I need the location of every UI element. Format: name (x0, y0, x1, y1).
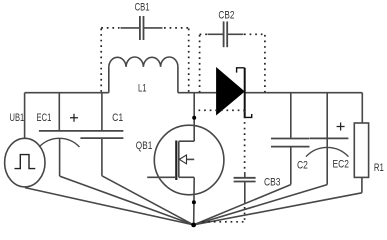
capacitor C1 (80, 131, 123, 176)
capacitor EC1 (39, 114, 81, 176)
inductor L1 (109, 57, 178, 93)
svg-text:CB2: CB2 (218, 9, 234, 21)
wire C1 to ground (102, 176, 194, 225)
wire C2 top lead (290, 93, 292, 139)
wire QB1 source (193, 177, 196, 225)
svg-text:L1: L1 (138, 83, 147, 95)
wire dotted box CB1 (101, 28, 189, 92)
capacitor CB3 (234, 172, 256, 203)
wire EC2 top lead (326, 93, 328, 139)
wire UB1 to ground (25, 188, 194, 225)
wire dotted CB3 net (199, 110, 245, 222)
wire R1 to ground (194, 193, 362, 225)
wire top rail left (25, 92, 109, 94)
svg-text:CB1: CB1 (135, 2, 150, 14)
node ground vertex (191, 223, 196, 228)
svg-text:CB3: CB3 (264, 176, 280, 188)
diode D1 (216, 67, 252, 117)
node source dot (192, 200, 196, 204)
resistor R1 (354, 123, 368, 193)
wire EC1 top lead (58, 93, 60, 131)
wire top rail middle (178, 92, 216, 94)
capacitor CB2 (208, 21, 244, 47)
svg-text:C1: C1 (112, 112, 123, 124)
wire C1 top lead (101, 93, 103, 131)
wire top rail right (245, 92, 363, 94)
transistor QB1 (147, 125, 224, 195)
source UB1 (5, 138, 45, 187)
svg-text:EC2: EC2 (333, 158, 349, 170)
svg-text:EC1: EC1 (37, 112, 52, 124)
capacitor EC2 (306, 123, 349, 185)
wire EC1 to ground (60, 176, 194, 225)
capacitor CB1 (121, 16, 163, 40)
capacitor C2 (271, 139, 310, 185)
svg-text:QB1: QB1 (136, 140, 153, 152)
wire QB1 drain (193, 93, 195, 142)
wire dotted box CB2 (200, 34, 265, 92)
wire UB1 top lead (24, 93, 26, 139)
svg-text:R1: R1 (374, 162, 384, 174)
wire C2 to ground (194, 185, 291, 225)
wire R1 top lead (361, 93, 363, 123)
svg-text:UB1: UB1 (10, 112, 25, 124)
node drain dot (192, 116, 196, 120)
wire EC2 to ground (194, 185, 328, 225)
svg-text:C2: C2 (297, 159, 308, 171)
